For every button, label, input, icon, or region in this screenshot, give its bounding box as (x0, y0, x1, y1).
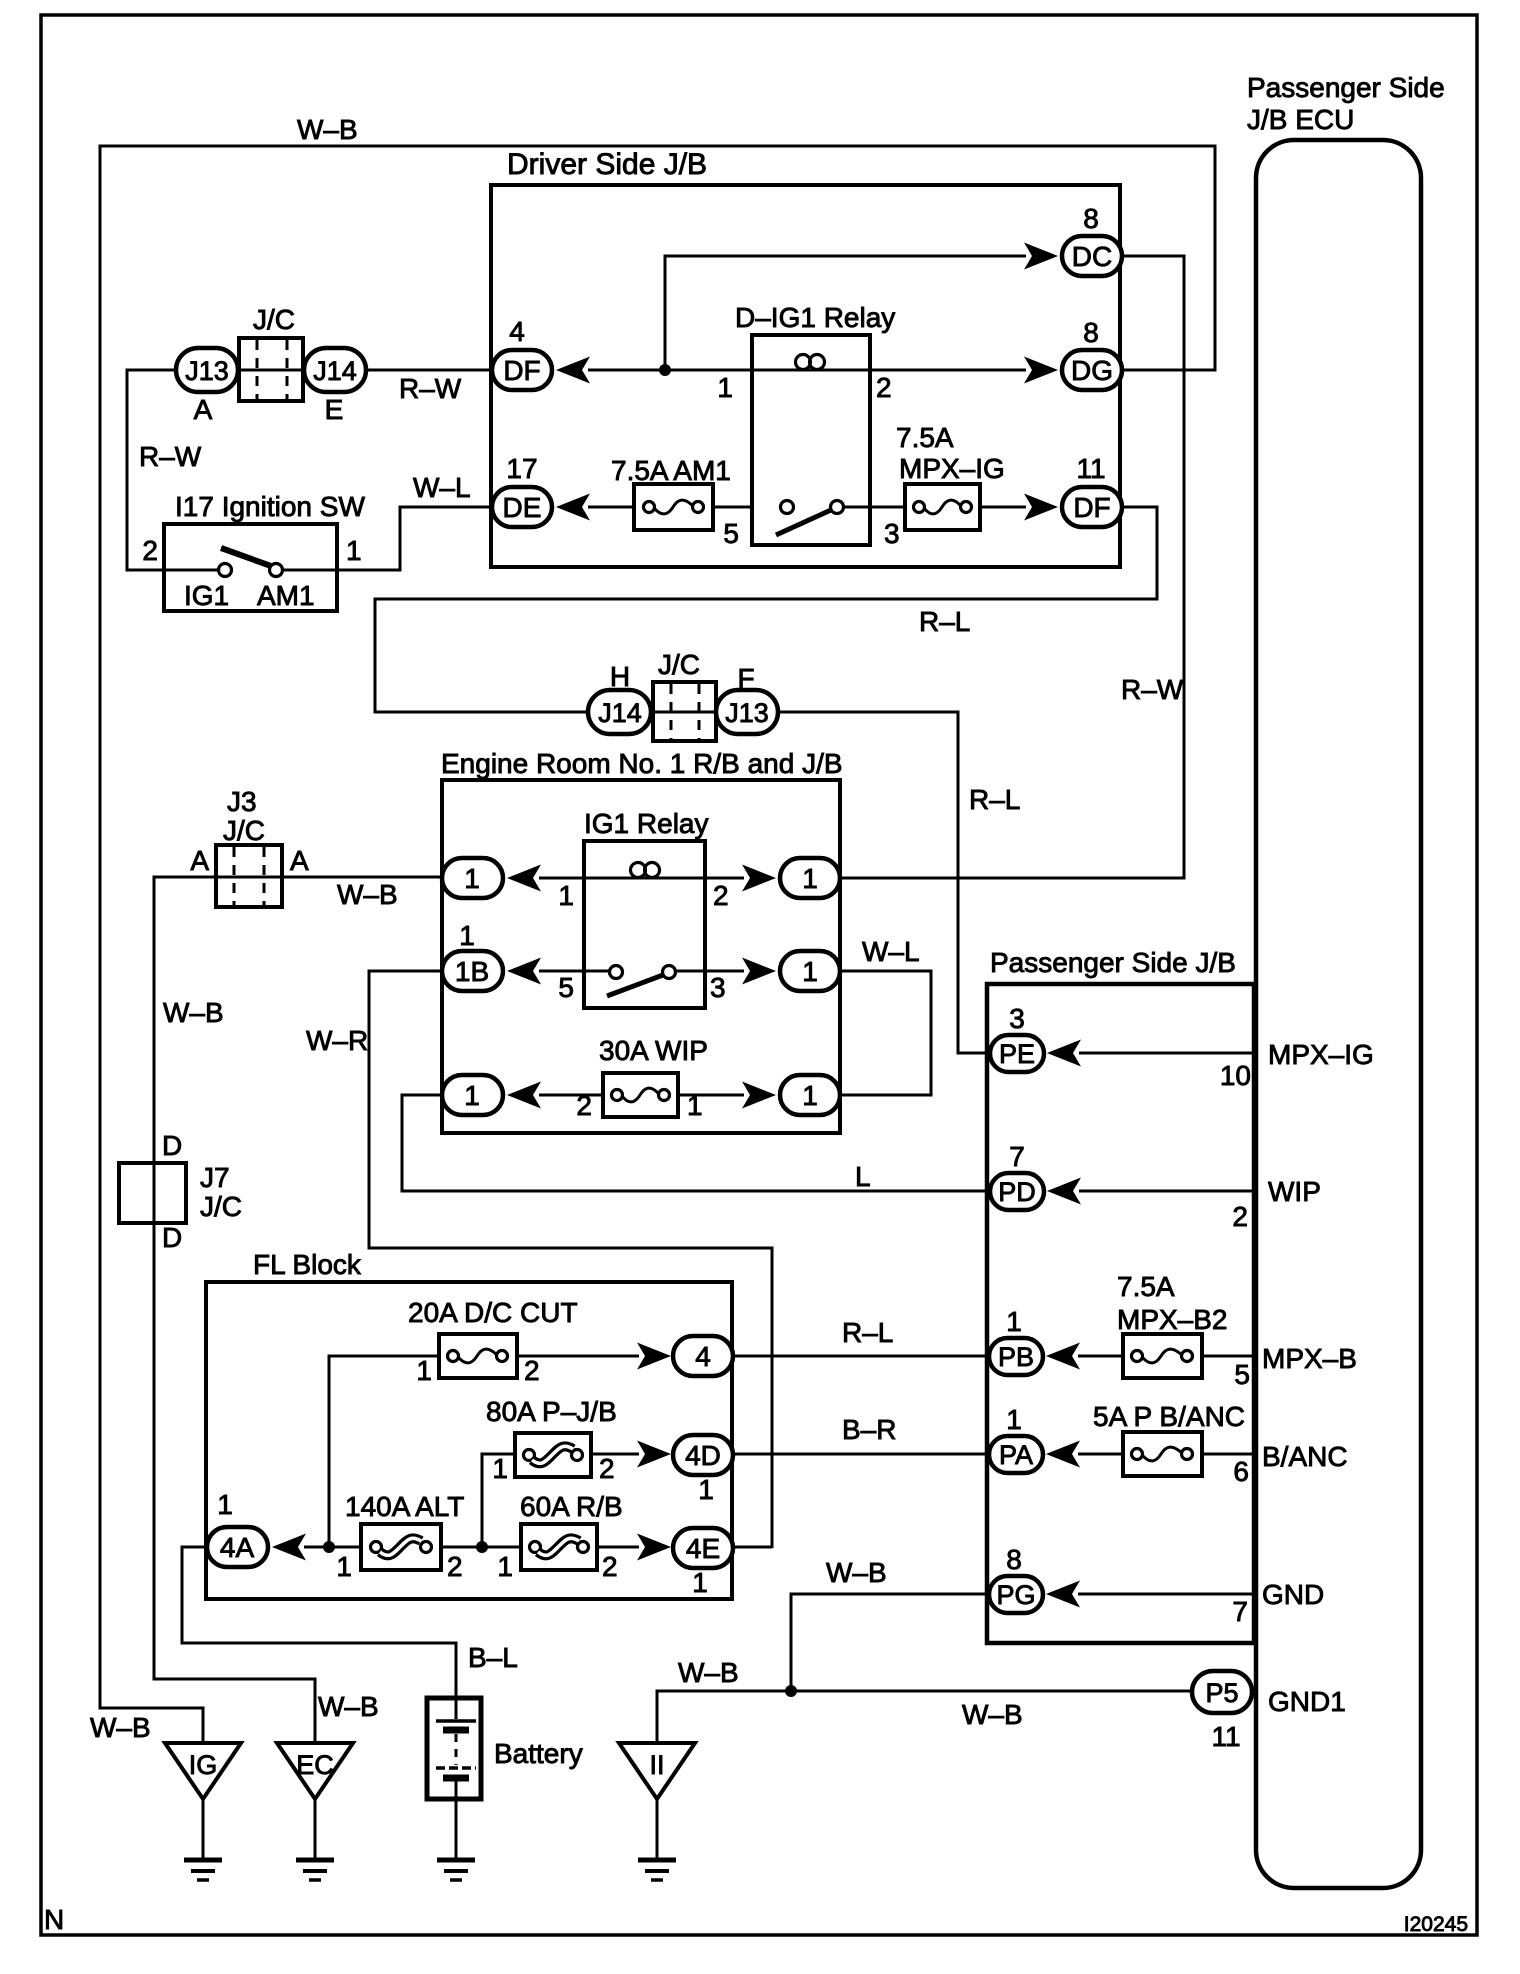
svg-text:4: 4 (509, 316, 525, 347)
wire W-R 1B to 4E (369, 971, 772, 1548)
connector J14 pin H (588, 690, 651, 734)
svg-text:Driver Side J/B: Driver Side J/B (507, 148, 707, 181)
svg-text:IG: IG (189, 1750, 218, 1780)
wire R-L J13 F to PE (778, 712, 990, 1053)
svg-text:W–B: W–B (337, 879, 398, 910)
connector 4E (673, 1528, 733, 1568)
arrow into PE (1047, 1040, 1081, 1067)
wire fuse 20A to connector 4 (517, 1355, 639, 1358)
svg-text:DF: DF (503, 355, 540, 386)
svg-text:PD: PD (998, 1177, 1036, 1207)
relay IG1 box (584, 841, 705, 1008)
svg-text:II: II (649, 1750, 664, 1780)
svg-text:MPX–IG: MPX–IG (1268, 1039, 1374, 1070)
arrow into DE (556, 494, 590, 521)
wire junction to fuse 20A (329, 1356, 439, 1547)
relay switch contact left (781, 501, 794, 514)
svg-text:DG: DG (1071, 355, 1113, 386)
connector PG pin 8 (989, 1576, 1043, 1613)
svg-text:R–W: R–W (1121, 674, 1184, 705)
svg-text:IG1: IG1 (184, 580, 229, 611)
connector 4 (673, 1336, 733, 1376)
junction connector J/C (middle) (653, 682, 716, 741)
connector DF pin 4 (492, 350, 552, 390)
wire relay pin 3 to fuse MPX-IG (843, 506, 905, 509)
svg-text:D: D (162, 1130, 182, 1161)
arrow into PG (1046, 1581, 1080, 1608)
svg-text:B/ANC: B/ANC (1262, 1441, 1348, 1472)
wire W-B J3 down through J7 to EC ground (154, 877, 315, 1744)
svg-text:2: 2 (1232, 1201, 1248, 1232)
battery (427, 1698, 481, 1799)
svg-text:L: L (855, 1161, 871, 1192)
svg-text:4: 4 (695, 1341, 711, 1372)
svg-text:PB: PB (998, 1342, 1034, 1372)
svg-text:J3: J3 (227, 786, 257, 817)
arrow into PD (1047, 1178, 1081, 1205)
connector 1 (coil row right) (780, 858, 840, 898)
wire PB to fuse MPX-B2 (1078, 1355, 1123, 1358)
connector J13 pin A (176, 348, 238, 392)
wire junction to DC (665, 256, 1026, 370)
svg-text:W–B: W–B (297, 114, 358, 145)
svg-text:10: 10 (1220, 1060, 1251, 1091)
junction connector J/C (top) (239, 338, 303, 401)
relay IG1 switch contact right (663, 966, 676, 979)
wire MPX-IG ECU to PE (1079, 1052, 1256, 1055)
connector DG pin 8 (1062, 350, 1122, 390)
svg-text:H: H (610, 661, 630, 692)
wire W-B PG down to ground run (791, 1594, 989, 1691)
arrow into DC (1024, 243, 1058, 270)
svg-text:2: 2 (876, 372, 892, 403)
wire fuse MPX-B2 to ECU MPX-B (1202, 1355, 1256, 1358)
svg-text:7.5A: 7.5A (1117, 1271, 1175, 1302)
svg-text:B–R: B–R (842, 1414, 896, 1445)
connector 1 (coil row left) (442, 858, 503, 898)
svg-text:EC: EC (296, 1750, 334, 1780)
svg-text:DF: DF (1073, 492, 1110, 523)
svg-text:I20245: I20245 (1404, 1913, 1468, 1936)
connector PD pin 7 (990, 1173, 1044, 1210)
svg-text:17: 17 (506, 453, 537, 484)
arrow into 4A (272, 1534, 306, 1561)
svg-text:7.5A AM1: 7.5A AM1 (611, 455, 731, 486)
wire fuse 60A to connector 4E (597, 1546, 639, 1549)
wire L WIP left to PD (402, 1095, 990, 1191)
connector J13 pin F (716, 690, 778, 734)
junction dot (20A tap) (323, 1541, 335, 1553)
svg-text:W–B: W–B (163, 997, 224, 1028)
svg-text:7: 7 (1232, 1596, 1248, 1627)
wire arrow to fuse 140A (304, 1546, 361, 1549)
svg-text:1: 1 (492, 1453, 508, 1484)
wire PA to fuse 5A (1078, 1453, 1123, 1456)
svg-text:E: E (325, 394, 344, 425)
svg-text:W–R: W–R (306, 1025, 368, 1056)
svg-text:2: 2 (576, 1090, 592, 1121)
arrow into DG (1024, 357, 1058, 384)
relay IG1 switch contact left (610, 966, 623, 979)
svg-text:11: 11 (1076, 453, 1105, 484)
wire fuse 80A to connector 4D (591, 1453, 639, 1456)
connector 1 (WIP row right) (780, 1075, 840, 1115)
svg-text:MPX–B: MPX–B (1262, 1343, 1357, 1374)
svg-text:2: 2 (524, 1355, 540, 1386)
arrow into connector 1 (WIP row) (507, 1082, 541, 1109)
svg-text:5: 5 (558, 972, 574, 1003)
svg-text:5: 5 (723, 518, 739, 549)
ignition contact AM1 (270, 564, 283, 577)
svg-text:5A P B/ANC: 5A P B/ANC (1093, 1401, 1245, 1432)
svg-text:MPX–IG: MPX–IG (899, 453, 1005, 484)
junction dot ground run (785, 1685, 797, 1697)
fuse 7.5A MPX-IG (905, 484, 980, 530)
svg-text:N: N (44, 1904, 64, 1935)
relay coil (752, 369, 870, 372)
svg-text:W–B: W–B (962, 1699, 1023, 1730)
relay IG1 switch blade (607, 975, 663, 996)
svg-text:1: 1 (558, 880, 574, 911)
svg-text:R–L: R–L (919, 606, 970, 637)
svg-text:A: A (290, 845, 309, 876)
svg-text:B–L: B–L (468, 1642, 518, 1673)
svg-text:80A P–J/B: 80A P–J/B (486, 1396, 617, 1427)
ECU Passenger Side J/B ECU box (1256, 140, 1421, 1888)
ignition contact IG1 (219, 564, 232, 577)
svg-text:3: 3 (884, 518, 900, 549)
svg-text:P5: P5 (1205, 1678, 1238, 1708)
svg-text:8: 8 (1006, 1544, 1022, 1575)
fuse 140A ALT (361, 1524, 441, 1570)
fuse 80A P-J/B (515, 1433, 591, 1477)
svg-text:J/C: J/C (253, 304, 295, 335)
svg-text:PE: PE (999, 1039, 1035, 1069)
svg-text:R–W: R–W (139, 441, 202, 472)
svg-text:J14: J14 (313, 356, 357, 386)
arrow into PA (1046, 1441, 1080, 1468)
junction block FL Block (206, 1282, 732, 1599)
svg-text:1: 1 (346, 535, 362, 566)
svg-text:20A D/C CUT: 20A D/C CUT (408, 1297, 578, 1328)
relay D-IG1 box (752, 335, 870, 545)
svg-text:J13: J13 (725, 698, 769, 728)
svg-text:5: 5 (1234, 1359, 1250, 1390)
svg-text:Passenger Side: Passenger Side (1247, 72, 1445, 103)
fuse 60A R/B (521, 1524, 597, 1570)
arrow into DF pin 11 (1024, 494, 1058, 521)
wire R-W DC to IG1 relay output (839, 256, 1184, 878)
arrow into output 1 (742, 865, 776, 892)
svg-text:F: F (737, 663, 754, 694)
connector 1 (switch row right) (780, 951, 840, 991)
wire W-B from DG around top-left down to IG ground (100, 146, 1215, 1744)
svg-text:WIP: WIP (1268, 1176, 1321, 1207)
svg-text:J14: J14 (598, 698, 642, 728)
arrow into connector 4E (637, 1534, 671, 1561)
svg-text:4E: 4E (686, 1533, 720, 1564)
svg-text:6: 6 (1233, 1456, 1249, 1487)
wire DE to fuse AM1 (588, 506, 634, 509)
junction block Engine Room No. 1 R/B and J/B (442, 780, 840, 1133)
svg-text:1: 1 (416, 1355, 432, 1386)
svg-text:I17 Ignition SW: I17 Ignition SW (175, 491, 365, 522)
svg-text:2: 2 (713, 880, 729, 911)
connector DF pin 11 (1062, 487, 1122, 527)
junction block Passenger Side J/B (987, 984, 1254, 1643)
ignition switch blade (221, 548, 271, 566)
fuse 20A D/C CUT (439, 1334, 517, 1378)
arrow into connector 4 (637, 1343, 671, 1370)
arrow into output 1 (switch row) (742, 958, 776, 985)
junction dot (659, 364, 671, 376)
svg-text:W–B: W–B (318, 1691, 379, 1722)
svg-text:J7: J7 (200, 1162, 230, 1193)
wire fuse 5A to ECU B/ANC (1202, 1453, 1256, 1456)
svg-text:8: 8 (1083, 203, 1099, 234)
svg-text:11: 11 (1211, 1721, 1240, 1752)
svg-text:4D: 4D (685, 1440, 721, 1471)
wire fuse WIP to output (678, 1094, 744, 1097)
svg-text:Passenger Side J/B: Passenger Side J/B (990, 947, 1236, 978)
svg-text:1: 1 (464, 1080, 480, 1111)
wire fuse AM1 to relay pin 5 (713, 506, 752, 509)
junction dot (80A tap) (476, 1541, 488, 1553)
svg-text:D–IG1 Relay: D–IG1 Relay (735, 302, 895, 333)
wire junction to fuse 80A (482, 1454, 515, 1547)
svg-text:4A: 4A (220, 1532, 255, 1563)
svg-text:PG: PG (996, 1580, 1035, 1610)
wire fuse MPX-IG to DF 11 (980, 506, 1026, 509)
svg-text:A: A (194, 394, 213, 425)
ground (battery) (437, 1858, 475, 1863)
ground triangle IG (165, 1743, 241, 1799)
fuse 7.5A MPX-B2 (1123, 1334, 1202, 1378)
connector PE pin 3 (990, 1035, 1044, 1072)
connector P5 (1192, 1671, 1252, 1713)
wire arrow to relay pin 1 (539, 877, 584, 880)
wire W-L relay output to WIP output (840, 971, 931, 1095)
svg-text:3: 3 (710, 972, 726, 1003)
svg-text:PA: PA (999, 1440, 1033, 1470)
svg-text:W–B: W–B (678, 1657, 739, 1688)
svg-text:R–L: R–L (842, 1317, 893, 1348)
svg-text:Engine Room No. 1 R/B and J/B: Engine Room No. 1 R/B and J/B (441, 748, 843, 779)
connector 4A (207, 1527, 268, 1567)
svg-text:1: 1 (336, 1551, 352, 1582)
connector PA pin 1 (989, 1436, 1043, 1473)
wire 4E to W-R vertical (733, 1546, 772, 1549)
ignition switch I17 box (164, 524, 337, 611)
junction block Driver Side J/B (491, 185, 1120, 567)
svg-text:8: 8 (1083, 317, 1099, 348)
svg-text:140A ALT: 140A ALT (345, 1491, 464, 1522)
svg-text:J/C: J/C (658, 649, 700, 680)
wire fuse 140A to fuse 60A (441, 1546, 521, 1549)
svg-text:1: 1 (464, 863, 480, 894)
wire WIP ECU to PD (1079, 1190, 1256, 1193)
wire R-L connector 4 to PB (733, 1355, 989, 1358)
ground triangle EC (277, 1743, 353, 1799)
svg-text:2: 2 (602, 1551, 618, 1582)
connector 4D (673, 1435, 733, 1475)
connector DE pin 17 (492, 487, 552, 527)
svg-text:1: 1 (1006, 1306, 1022, 1337)
wire DF row to relay coil pin 1 (588, 369, 752, 372)
svg-text:W–L: W–L (862, 936, 920, 967)
svg-text:1: 1 (497, 1551, 513, 1582)
wire arrow to fuse WIP (539, 1094, 603, 1097)
connector 1B (442, 951, 503, 991)
svg-text:J/C: J/C (200, 1191, 242, 1222)
wire R-W J14 to DF (366, 369, 494, 372)
svg-text:Battery: Battery (494, 1738, 583, 1769)
svg-text:J13: J13 (185, 356, 229, 386)
connector PB pin 1 (989, 1338, 1043, 1375)
svg-text:MPX–B2: MPX–B2 (1117, 1304, 1228, 1335)
ground triangle II (619, 1743, 695, 1799)
svg-text:1: 1 (692, 1567, 708, 1598)
svg-text:2: 2 (599, 1453, 615, 1484)
svg-text:DE: DE (503, 492, 542, 523)
svg-text:AM1: AM1 (257, 580, 315, 611)
svg-text:D: D (162, 1222, 182, 1253)
svg-text:1: 1 (802, 956, 818, 987)
relay switch contact right (831, 501, 844, 514)
svg-text:W–B: W–B (826, 1557, 887, 1588)
fuse 30A WIP (603, 1073, 678, 1117)
wire arrow to relay pin 5 (539, 970, 584, 973)
svg-text:1B: 1B (455, 956, 489, 987)
relay switch blade (776, 510, 831, 535)
svg-text:A: A (190, 845, 209, 876)
svg-text:DC: DC (1072, 241, 1112, 272)
svg-text:7: 7 (1009, 1141, 1025, 1172)
arrow into connector 1 (507, 865, 541, 892)
svg-text:W–L: W–L (413, 472, 471, 503)
svg-text:60A R/B: 60A R/B (520, 1491, 623, 1522)
wire relay pin 3 to output 1 (705, 970, 744, 973)
svg-text:2: 2 (447, 1551, 463, 1582)
wire relay pin 2 to DG (870, 369, 1026, 372)
svg-text:1: 1 (1006, 1404, 1022, 1435)
svg-text:1: 1 (217, 1489, 233, 1520)
wire W-B J3 to IG1 relay input (214, 876, 444, 879)
arrow into DF (556, 357, 590, 384)
wire GND ECU to PG (1078, 1593, 1256, 1596)
relay IG1 coil (584, 877, 705, 880)
connector DC pin 8 (1062, 236, 1122, 276)
wire W-L ignition to DE (283, 507, 494, 570)
arrow into output 1 (WIP row) (742, 1082, 776, 1109)
svg-text:1: 1 (802, 863, 818, 894)
arrow into 1B (507, 958, 541, 985)
arrow into PB (1046, 1343, 1080, 1370)
svg-text:30A WIP: 30A WIP (599, 1035, 708, 1066)
connector 1 (WIP row left) (442, 1075, 503, 1115)
svg-text:W–B: W–B (90, 1712, 151, 1743)
wire R-W J13 to ignition switch IG1 (127, 370, 219, 570)
wire R-L DF11 to J14 H (375, 507, 1157, 712)
svg-text:R–W: R–W (399, 373, 462, 404)
svg-text:GND1: GND1 (1268, 1686, 1346, 1717)
wire W-B II triangle to P5 (657, 1691, 1193, 1744)
connector J14 pin E (304, 348, 366, 392)
svg-text:FL Block: FL Block (253, 1249, 362, 1280)
svg-text:2: 2 (142, 535, 158, 566)
svg-text:1: 1 (698, 1474, 714, 1505)
svg-text:7.5A: 7.5A (896, 422, 954, 453)
svg-text:1: 1 (717, 372, 733, 403)
svg-text:J/C: J/C (223, 815, 265, 846)
svg-text:R–L: R–L (969, 784, 1020, 815)
svg-text:3: 3 (1009, 1003, 1025, 1034)
fuse 5A P B/ANC (1123, 1432, 1202, 1476)
junction connector J7 (119, 1163, 186, 1223)
junction connector J3 (216, 845, 282, 907)
svg-text:1: 1 (802, 1080, 818, 1111)
svg-text:IG1 Relay: IG1 Relay (584, 808, 709, 839)
svg-text:1: 1 (459, 920, 475, 951)
wire relay pin 2 to output 1 (705, 877, 744, 880)
wire B-L 4A to battery (182, 1547, 456, 1698)
fuse 7.5A AM1 (634, 484, 713, 530)
arrow into connector 4D (637, 1441, 671, 1468)
svg-text:GND: GND (1262, 1579, 1324, 1610)
svg-text:J/B ECU: J/B ECU (1247, 104, 1354, 135)
wire B-R connector 4D to PA (733, 1453, 989, 1456)
